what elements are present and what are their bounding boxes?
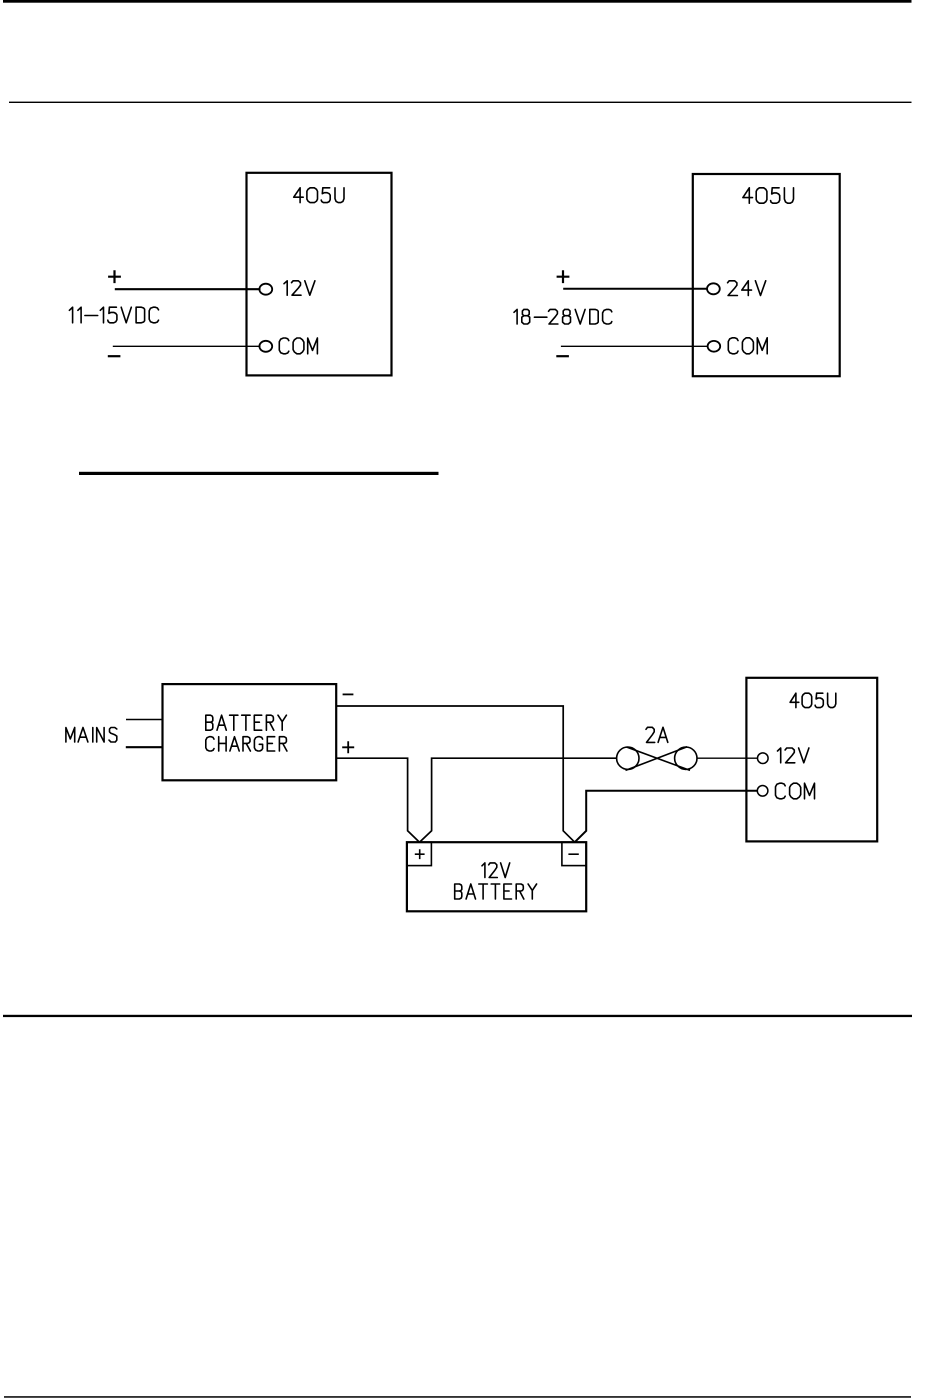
pin label 12V (left unit) [284,281,315,295]
wire battery + terminal up to fuse feed [420,758,617,842]
wire mains upper [126,719,163,721]
label 405U (right unit) [743,188,794,203]
label BATTERY (charger) [206,715,287,730]
plus sign (24V supply) [557,270,570,283]
plus sign (12V supply) [108,270,121,283]
terminal circle 12V (charger diagram) [758,753,769,764]
pin label COM (right unit) [728,338,767,354]
terminal circle COM (charger diagram) [757,786,768,797]
label 405U (charger diagram unit) [790,693,836,707]
405U unit box (12V supply diagram) [247,173,392,376]
wire - supply to COM terminal [113,345,261,347]
wire mains lower [126,746,163,748]
wire + supply to 24V terminal [563,288,707,290]
wire fuse to 12V terminal [697,757,758,759]
battery B1 box [407,842,586,911]
battery + terminal sign [415,849,425,859]
minus sign (24V supply) [556,355,569,357]
pin label 12V (charger diagram) [778,748,809,763]
minus sign (charger output) [343,693,354,695]
plus sign (charger output) [342,741,354,753]
label 18-28VDC [514,309,612,324]
405U unit box (24V supply diagram) [693,174,840,376]
battery - terminal sign [568,853,578,855]
label 12V (battery) [482,863,510,878]
wire charger + to battery + terminal [336,758,419,842]
fuse F1 2A symbol [617,747,697,771]
terminal circle 24V (right unit) [707,283,720,294]
pin label 24V [728,281,766,296]
battery charger box [163,684,337,780]
label 405U (left unit) [294,188,344,203]
pin label COM (left unit) [279,338,317,354]
label MAINS [66,728,117,743]
wire COM to battery - terminal [575,791,758,842]
label CHARGER [206,737,287,751]
wire charger - to battery - terminal [336,706,575,842]
battery - terminal box [562,842,586,865]
label BATTERY (battery) [455,884,537,899]
minus sign (12V supply) [108,355,121,357]
pin label COM (charger diagram) [776,783,815,799]
wire + supply to 12V terminal [115,288,261,290]
battery + terminal box [407,842,432,865]
405U unit box (charger diagram) [746,678,877,842]
wire - supply to COM terminal (right) [561,345,708,347]
fuse rating label 2A [646,727,668,742]
terminal circle COM (left unit) [259,341,272,352]
label 11-15VDC [69,307,158,323]
terminal circle 12V (left unit) [259,284,272,295]
terminal circle COM (right unit) [708,341,721,352]
